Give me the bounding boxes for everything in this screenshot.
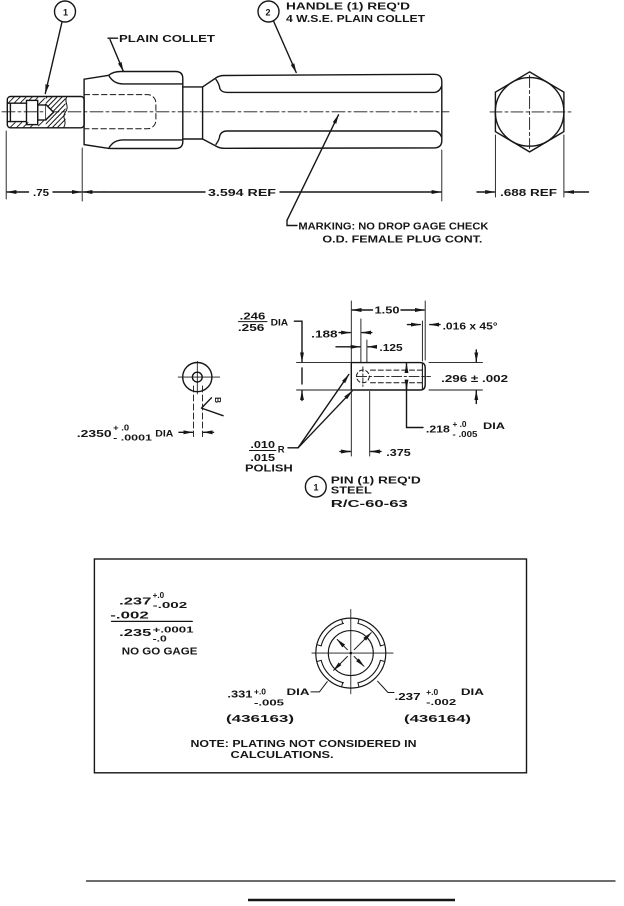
leader balloon 2 (274, 21, 297, 73)
leader plain collet (108, 37, 118, 39)
svg-text:B: B (213, 397, 223, 403)
svg-text:DIA: DIA (483, 421, 506, 431)
pin tip bore lines (7, 102, 26, 104)
svg-text:DIA: DIA (287, 687, 311, 697)
footer rule (86, 880, 616, 882)
hatch bottom band (10, 122, 33, 127)
ext lines right of pin (429, 362, 483, 364)
svg-text:CALCULATIONS.: CALCULATIONS. (231, 750, 334, 761)
hex centerlines (490, 111, 574, 113)
svg-text:.331: .331 (227, 690, 253, 701)
balloon 1 (55, 1, 76, 22)
hatch top band (9, 97, 39, 103)
svg-text:.246: .246 (240, 311, 266, 322)
dim .688 arrows (477, 191, 494, 193)
svg-text:+.0001: +.0001 (153, 626, 195, 635)
hex inscribed circle (495, 78, 564, 147)
svg-text:.016 x 45°: .016 x 45° (443, 321, 498, 332)
pin flange (27, 100, 38, 124)
pin cone redraw (46, 105, 54, 120)
svg-text:NO GO GAGE: NO GO GAGE (122, 646, 198, 657)
pin step (38, 105, 46, 120)
gage outer circle (316, 618, 386, 688)
dim .375 arrows (340, 451, 350, 453)
svg-text:+ .0: + .0 (113, 424, 130, 433)
svg-text:- .0001: - .0001 (113, 434, 153, 443)
dim .75 (7, 191, 28, 193)
svg-text:- .005: - .005 (453, 430, 479, 439)
svg-text:.296 ± .002: .296 ± .002 (441, 374, 509, 385)
dim 1.50 (352, 309, 372, 311)
dim .2350 arrows (179, 431, 193, 433)
svg-text:(436164): (436164) (404, 714, 471, 725)
svg-text:-.0: -.0 (153, 635, 168, 644)
pin bore (dashed) (371, 369, 424, 371)
svg-text:-.002: -.002 (153, 601, 189, 610)
svg-text:.235: .235 (119, 628, 152, 639)
svg-text:.188: .188 (311, 330, 338, 341)
pin chamfer edge (421, 363, 423, 390)
neck (183, 87, 203, 139)
fraction bar .246/.256 (239, 321, 268, 323)
svg-text:-.002: -.002 (110, 611, 149, 622)
dim .296 inside arrows (406, 364, 408, 372)
svg-text:1: 1 (314, 483, 319, 493)
svg-text:O.D. FEMALE PLUG CONT.: O.D. FEMALE PLUG CONT. (322, 234, 482, 245)
svg-text:R/C-60-63: R/C-60-63 (331, 499, 409, 510)
dim .688 extension lines (494, 135, 496, 197)
cone mask (46, 105, 54, 120)
sleeve S1 (cross-sectioned collet cap) (7, 97, 84, 128)
gage slotted ring (321, 623, 380, 682)
extension line right of handle (441, 150, 443, 201)
dim .75 extension lines (5, 131, 7, 199)
svg-text:DIA: DIA (271, 318, 289, 328)
svg-text:.75: .75 (33, 188, 49, 199)
svg-text:3.594 REF: 3.594 REF (208, 188, 276, 199)
svg-text:HANDLE (1) REQ'D: HANDLE (1) REQ'D (286, 2, 410, 13)
hex end view (495, 72, 564, 152)
pin end view (183, 363, 212, 392)
leader polish (288, 447, 298, 449)
svg-text:+.0: +.0 (426, 688, 439, 697)
svg-text:.237: .237 (119, 596, 152, 607)
diagonal arrows (334, 633, 372, 671)
svg-text:2: 2 (266, 8, 271, 18)
pin body (351, 363, 425, 390)
svg-text:.218: .218 (426, 425, 451, 436)
svg-text:-.002: -.002 (426, 698, 457, 707)
ring slot ticks (318, 620, 385, 687)
leader marking (287, 115, 339, 221)
gage box frame (94, 559, 526, 773)
dim .2350 ext lines (dashed) (193, 386, 195, 437)
svg-text:4 W.S.E. PLAIN COLLET: 4 W.S.E. PLAIN COLLET (286, 14, 425, 25)
pin tip face (9, 103, 11, 121)
hatch step bands (39, 99, 45, 126)
svg-text:+.0: +.0 (153, 591, 165, 600)
dim .188 (339, 332, 350, 334)
svg-text:-.005: -.005 (254, 699, 285, 708)
datum B angle (202, 398, 224, 416)
svg-text:NOTE: PLATING NOT CONSIDERED I: NOTE: PLATING NOT CONSIDERED IN (191, 739, 417, 750)
leader balloon 1 (45, 22, 62, 94)
gage crosshair (312, 652, 393, 654)
dim .246 bracket (294, 321, 302, 352)
balloon 1 pin (305, 476, 326, 497)
svg-text:.015: .015 (250, 453, 275, 464)
svg-text:.375: .375 (386, 448, 411, 459)
dim .296 outside arrows (475, 350, 477, 362)
svg-text:.688 REF: .688 REF (500, 188, 557, 199)
dim .375 ext lines (350, 392, 352, 457)
leader .218 (407, 385, 424, 428)
leader .237 (378, 681, 394, 692)
leader .331 (311, 682, 327, 692)
svg-text:DIA: DIA (461, 687, 485, 697)
svg-text:1: 1 (63, 8, 68, 18)
center dot (350, 652, 353, 655)
svg-text:STEEL: STEEL (331, 486, 372, 497)
svg-text:+ .0: + .0 (453, 420, 468, 429)
collet nose (84, 75, 109, 148)
svg-text:.256: .256 (238, 323, 265, 334)
ext lines left of pin (297, 362, 351, 364)
svg-text:DIA: DIA (155, 428, 174, 438)
hatch mid region (14, 94, 90, 131)
balloon 2 (258, 1, 279, 22)
svg-text:+.0: +.0 (254, 688, 267, 697)
dim .125 (336, 346, 360, 348)
collet facet lines (109, 76, 183, 84)
svg-text:1.50: 1.50 (375, 306, 401, 317)
dim 3.594 (83, 191, 104, 193)
svg-text:.237: .237 (395, 692, 422, 703)
centerline main view (2, 111, 449, 113)
svg-text:POLISH: POLISH (245, 464, 293, 475)
svg-text:MARKING: NO DROP GAGE CHECK: MARKING: NO DROP GAGE CHECK (298, 222, 489, 233)
polish fraction bar (249, 450, 276, 452)
svg-text:(436163): (436163) (226, 714, 294, 725)
svg-text:.125: .125 (379, 343, 403, 354)
pin cone (46, 105, 54, 120)
break line (wavy) (64, 97, 68, 128)
handle body outline (203, 74, 442, 148)
gage bore circle (328, 631, 373, 676)
svg-text:.2350: .2350 (77, 429, 112, 440)
svg-text:PLAIN COLLET: PLAIN COLLET (119, 34, 215, 45)
pin centerline (357, 375, 431, 377)
dim .016x45 (408, 324, 421, 326)
ext lines above pin (350, 301, 352, 362)
collet hidden bore (dashed) (84, 95, 156, 129)
svg-text:R: R (278, 445, 285, 456)
handle facet lines (216, 80, 442, 93)
collet body (109, 72, 183, 149)
pin hole (dashed circle) (357, 370, 370, 383)
footer bar (248, 899, 455, 901)
fraction rule (112, 620, 193, 622)
svg-text:.010: .010 (250, 440, 275, 451)
